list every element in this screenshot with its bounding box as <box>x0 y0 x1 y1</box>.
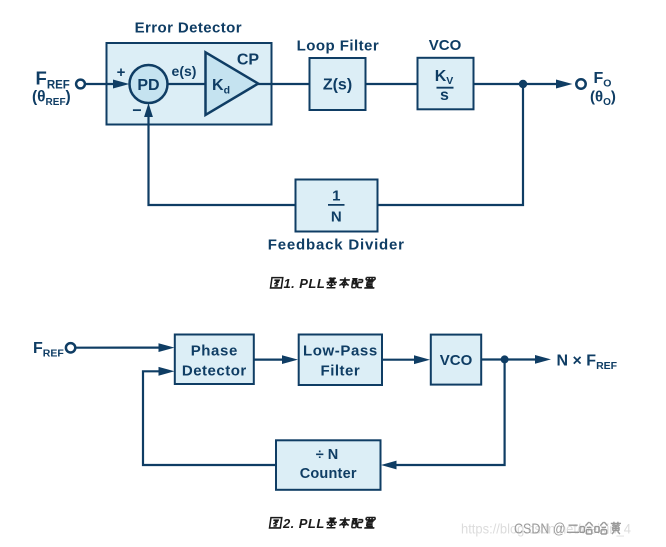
svg-text:s: s <box>440 87 449 104</box>
svg-text:N: N <box>331 209 342 226</box>
error detector box <box>107 43 272 125</box>
wire VCO to output fig2 <box>481 358 536 360</box>
svg-text:VCO: VCO <box>440 352 473 369</box>
svg-text:Detector: Detector <box>182 362 247 379</box>
svg-text:CSDN @: CSDN @ <box>514 521 566 538</box>
phase detector box <box>175 335 254 385</box>
svg-text:N × FREF: N × FREF <box>557 352 618 372</box>
output terminal FO <box>576 79 585 88</box>
svg-text:(θO): (θO) <box>590 89 616 109</box>
svg-text:Filter: Filter <box>321 362 361 379</box>
svg-text:Z(s): Z(s) <box>323 77 352 94</box>
wire FREF to PD <box>86 83 115 85</box>
svg-text:FREF: FREF <box>33 340 64 360</box>
svg-text:Loop Filter: Loop Filter <box>297 38 379 55</box>
svg-text:PD: PD <box>137 77 159 94</box>
svg-text:Low-Pass: Low-Pass <box>303 342 378 359</box>
loop filter box Z(s) <box>310 58 366 110</box>
svg-text:1: 1 <box>332 188 340 205</box>
svg-text:VCO: VCO <box>429 37 462 54</box>
junction node fig2 <box>501 355 509 363</box>
wire Kd to loop filter <box>258 83 310 85</box>
svg-text:Feedback Divider: Feedback Divider <box>268 236 405 253</box>
wire feedback right (junction down to divider) <box>378 86 523 205</box>
svg-text:CP: CP <box>237 52 260 69</box>
arrowhead to FO terminal <box>556 80 573 89</box>
input terminal FREF fig2 <box>66 343 75 352</box>
figure 1 caption <box>271 276 376 291</box>
wire feedback down to counter <box>397 361 505 465</box>
VCO box Kv/s <box>418 58 474 110</box>
low-pass filter box <box>299 335 382 386</box>
svg-text:÷ N: ÷ N <box>316 447 338 463</box>
svg-text:FO: FO <box>594 70 612 90</box>
summing node PD <box>130 65 168 103</box>
svg-text:Counter: Counter <box>300 466 357 482</box>
svg-text:−: − <box>132 103 141 120</box>
svg-text:Phase: Phase <box>191 342 238 359</box>
input terminal FREF <box>76 80 85 89</box>
figure 2 caption <box>270 516 376 531</box>
wire PD to Kd amp <box>168 83 207 85</box>
arrowhead to output label fig2 <box>535 355 551 364</box>
wire counter to phase detector second input <box>143 371 276 465</box>
watermark <box>461 521 631 538</box>
svg-text:Error Detector: Error Detector <box>135 19 242 36</box>
feedback divider box 1/N <box>296 180 378 232</box>
junction node fig1 <box>519 80 527 88</box>
wire VCO to output <box>474 83 558 85</box>
wire FREF to phase detector <box>76 347 160 349</box>
amplifier Kd (charge pump) <box>206 52 259 115</box>
wire feedback left (divider to PD minus input) <box>149 116 296 205</box>
VCO box fig2 <box>431 335 481 385</box>
wire phase detector to low-pass filter <box>254 359 283 361</box>
svg-text:2. PLL: 2. PLL <box>282 516 325 531</box>
divide-by-N counter box <box>276 440 381 490</box>
svg-text:1. PLL: 1. PLL <box>284 276 326 291</box>
svg-text:e(s): e(s) <box>172 63 197 79</box>
wire Z(s) to VCO <box>366 83 419 85</box>
svg-text:+: + <box>117 64 126 81</box>
wire low-pass filter to VCO <box>382 359 415 361</box>
